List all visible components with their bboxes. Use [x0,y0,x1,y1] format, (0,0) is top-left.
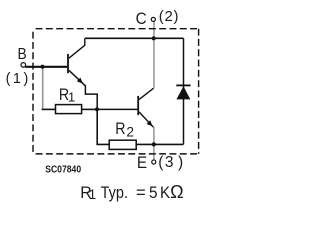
terminal E circle [152,160,156,164]
svg-text:R: R [115,120,125,138]
svg-text:K: K [160,184,171,202]
svg-text:(1): (1) [6,71,31,87]
svg-text:(3): (3) [158,154,183,171]
diode D1 vertical wire [183,38,185,144]
junction node E [152,142,156,146]
wire node to Q2 base [97,108,137,110]
wire B node down to R1 left (vertical) [42,67,44,109]
svg-text:1: 1 [68,90,75,105]
transistor Q2 collector diagonal [139,88,154,99]
svg-text:5: 5 [149,184,158,202]
transistor Q2 emitter arrow [147,120,153,126]
svg-text:=: = [136,184,146,202]
dashed package outline [33,29,199,154]
gray thin vertical wires [43,22,154,160]
transistor Q2 base bar [137,96,139,115]
junction node C [152,36,156,40]
wire E node to diode anode [154,143,184,145]
svg-text:SC07840: SC07840 [45,164,81,175]
wire E node down to terminal E [153,145,155,160]
svg-text:Typ.: Typ. [101,184,128,202]
svg-text:C: C [136,9,147,28]
diode D1 triangle [176,86,190,99]
resistor R2 body [109,140,136,149]
terminal B circle [21,63,26,68]
resistor R1 body [56,105,82,114]
transistor Q1 emitter path to node [69,70,97,109]
transistor Q1 base bar [67,54,69,73]
transistor Q1 emitter arrow [77,78,83,84]
wire B lead to Q1 base [25,66,67,68]
svg-text:B: B [18,45,27,63]
svg-text:E: E [137,154,147,172]
wire R2 right to E node [136,143,154,145]
wire top rail [85,37,184,39]
svg-text:Ω: Ω [170,182,183,202]
wire C terminal lead + Q2 collector vertical [153,22,155,88]
terminal C circle [151,17,155,21]
transistor Q2 emitter diagonal [139,112,153,127]
wire Q2 emitter vertical to E node [153,127,155,143]
wire R1 right to node [82,108,98,110]
wire node down to R2 left [97,109,109,144]
svg-text:2: 2 [126,124,134,139]
wire into R1 left [42,108,56,110]
svg-text:1: 1 [89,187,97,202]
svg-text:(2): (2) [159,8,179,25]
junction node B/R1 [40,65,44,69]
junction node Q1 emitter / Q2 base [95,107,99,111]
diode D1 cathode bar [176,84,190,86]
transistor Q1 collector path to top rail [69,38,85,58]
